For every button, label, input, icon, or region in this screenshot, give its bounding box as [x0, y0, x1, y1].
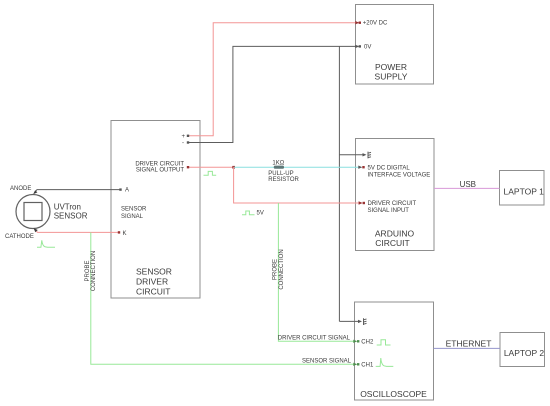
- svg-text:SENSOR: SENSOR: [54, 212, 88, 221]
- svg-text:SENSOR: SENSOR: [136, 266, 172, 276]
- svg-text:LAPTOP 1: LAPTOP 1: [504, 187, 545, 197]
- arrowhead at CH1: [353, 363, 357, 366]
- arrowhead at arduino ground: [363, 153, 367, 156]
- oscilloscope ground symbol: [364, 318, 367, 325]
- svg-text:USB: USB: [460, 180, 476, 189]
- UVTron sensor circle: [16, 195, 50, 229]
- probe wire 1 (green, cathode to CH1): [91, 232, 356, 364]
- arduino circuit box U_ARD: [356, 139, 435, 251]
- svg-text:SUPPLY: SUPPLY: [375, 71, 408, 81]
- terminal dot 0V: [359, 45, 361, 47]
- terminal dot plus: [187, 135, 189, 137]
- wire USB (magenta): [434, 187, 500, 189]
- wire ground branch to arduino: [339, 154, 363, 156]
- terminal dot A: [119, 188, 121, 190]
- wire - terminal to 0V (black): [188, 46, 357, 142]
- arrowhead at CH2: [353, 340, 357, 343]
- junction dot pull-up node: [232, 166, 235, 169]
- terminal dot CH1: [357, 363, 359, 365]
- svg-text:DRIVER CIRCUIT SIGNAL: DRIVER CIRCUIT SIGNAL: [278, 336, 351, 342]
- arrowhead at arduino 5V terminal: [358, 166, 362, 169]
- svg-text:DRIVER CIRCUIT: DRIVER CIRCUIT: [368, 201, 417, 207]
- resistor R1 1K pull-up: [274, 166, 284, 169]
- svg-text:UVTron: UVTron: [54, 202, 81, 211]
- wire driver signal to arduino input (red): [234, 167, 361, 203]
- svg-text:1KΩ: 1KΩ: [272, 161, 284, 167]
- arrowhead at arduino input: [359, 201, 363, 204]
- terminal dot minus: [187, 141, 189, 143]
- wire anode to A terminal: [34, 190, 120, 193]
- svg-text:LAPTOP 2: LAPTOP 2: [504, 348, 545, 358]
- svg-text:SIGNAL OUTPUT: SIGNAL OUTPUT: [136, 168, 184, 174]
- svg-text:DRIVER CIRCUIT: DRIVER CIRCUIT: [135, 161, 184, 167]
- svg-text:K: K: [123, 231, 127, 237]
- svg-text:INTERFACE VOLTAGE: INTERFACE VOLTAGE: [368, 172, 431, 178]
- svg-text:A: A: [125, 188, 129, 194]
- arduino ground symbol: [368, 152, 371, 159]
- svg-text:CH2: CH2: [361, 340, 374, 346]
- terminal dot arduino 5V: [362, 166, 364, 168]
- ground bus wire (black vertical from 0V line): [338, 46, 340, 321]
- waveform 5V pulse: [242, 211, 255, 215]
- probe wire 2 (green, driver signal to CH2): [278, 203, 355, 341]
- wire pull-up to arduino 5V (cyan): [234, 166, 361, 168]
- waveform pulse at driver output: [204, 171, 217, 175]
- laptop 1 box: [500, 171, 545, 206]
- arrowhead at 0V: [355, 45, 359, 48]
- power supply box U_PS: [356, 5, 434, 85]
- svg-text:+20V DC: +20V DC: [363, 21, 388, 27]
- svg-text:SENSOR: SENSOR: [121, 206, 147, 212]
- svg-text:RESISTOR: RESISTOR: [268, 177, 299, 183]
- svg-text:0V: 0V: [364, 44, 371, 50]
- svg-text:SIGNAL INPUT: SIGNAL INPUT: [368, 208, 410, 214]
- svg-text:5V DC DIGITAL: 5V DC DIGITAL: [368, 166, 411, 172]
- arrowhead at +20V: [355, 21, 359, 24]
- waveform spike at cathode: [37, 240, 55, 247]
- laptop 2 box: [500, 333, 545, 367]
- svg-text:5V: 5V: [257, 211, 264, 217]
- svg-text:+: +: [182, 134, 186, 140]
- svg-text:CIRCUIT: CIRCUIT: [375, 238, 409, 248]
- svg-text:SENSOR SIGNAL: SENSOR SIGNAL: [302, 358, 352, 364]
- waveform pulse at CH2: [377, 340, 391, 345]
- svg-text:ARDUINO: ARDUINO: [375, 229, 415, 239]
- svg-text:DRIVER: DRIVER: [136, 276, 168, 286]
- svg-text:ETHERNET: ETHERNET: [446, 338, 492, 348]
- svg-text:CIRCUIT: CIRCUIT: [136, 286, 170, 296]
- terminal dot +20V: [359, 22, 361, 24]
- svg-text:CATHODE: CATHODE: [5, 234, 34, 240]
- UVTron sensor window square: [24, 203, 42, 221]
- wire ground branch to oscilloscope: [339, 320, 359, 322]
- anode arrowhead: [33, 190, 37, 194]
- terminal dot arduino input: [363, 202, 365, 204]
- wire driver output (red horizontal): [188, 166, 234, 168]
- terminal dot CH2: [357, 340, 359, 342]
- wire cathode to K terminal (red): [35, 229, 119, 232]
- svg-text:SIGNAL: SIGNAL: [121, 214, 144, 220]
- waveform spike at CH1: [376, 358, 394, 366]
- svg-text:OSCILLOSCOPE: OSCILLOSCOPE: [360, 389, 427, 399]
- terminal dot K: [118, 231, 120, 233]
- svg-text:CH1: CH1: [361, 363, 374, 369]
- cathode arrowhead: [34, 228, 38, 232]
- arrowhead at oscilloscope ground: [358, 320, 362, 323]
- svg-text:-: -: [182, 141, 184, 147]
- oscilloscope box U_OSC: [355, 302, 434, 400]
- wire ETHERNET (blue): [434, 347, 501, 349]
- wire + terminal to +20V DC (red): [188, 23, 357, 136]
- terminal dot driver output: [187, 166, 189, 168]
- sensor driver circuit box U_SD: [111, 121, 200, 299]
- svg-text:ANODE: ANODE: [10, 186, 31, 192]
